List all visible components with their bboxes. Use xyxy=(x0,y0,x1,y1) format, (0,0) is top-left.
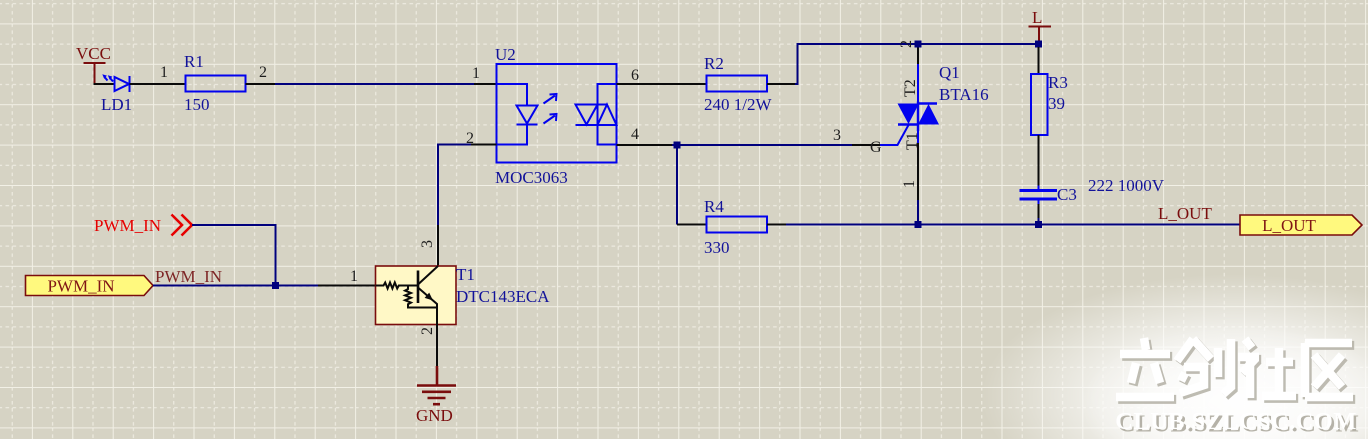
svg-text:LD1: LD1 xyxy=(101,95,132,114)
wire LD1 to R1 xyxy=(130,83,186,85)
svg-text:3: 3 xyxy=(833,127,841,144)
wire R2 to top rail xyxy=(767,83,795,85)
svg-text:2: 2 xyxy=(419,327,436,335)
resistor R2 xyxy=(707,76,768,92)
svg-text:R2: R2 xyxy=(704,54,724,73)
wire junction down to R4 xyxy=(676,145,678,225)
svg-text:PWM_IN: PWM_IN xyxy=(155,267,222,286)
ground xyxy=(417,366,456,404)
svg-text:BTA16: BTA16 xyxy=(939,85,989,104)
svg-text:PWM_IN: PWM_IN xyxy=(47,277,114,296)
svg-text:1: 1 xyxy=(901,180,918,188)
svg-text:6: 6 xyxy=(631,67,639,84)
svg-text:2: 2 xyxy=(259,64,267,81)
svg-text:Q1: Q1 xyxy=(939,63,960,82)
svg-text:U2: U2 xyxy=(495,45,516,64)
U2 coupling arrows xyxy=(544,94,557,124)
node junction bottom rail / Q1 T1 xyxy=(915,221,922,228)
svg-text:L_OUT: L_OUT xyxy=(1158,204,1212,223)
U2 internal LED xyxy=(497,84,538,145)
svg-text:G: G xyxy=(870,139,882,156)
svg-text:PWM_IN: PWM_IN xyxy=(94,216,161,235)
port L_OUT xyxy=(1240,215,1362,235)
svg-text:1: 1 xyxy=(160,64,168,81)
resistor R3 xyxy=(1038,47,1040,74)
svg-text:MOC3063: MOC3063 xyxy=(495,168,568,187)
svg-text:CLUB.SZLCSC.COM: CLUB.SZLCSC.COM xyxy=(1115,408,1357,435)
watermark chinese text (drawn strokes) xyxy=(1118,340,1355,400)
svg-text:R4: R4 xyxy=(704,197,724,216)
svg-text:C3: C3 xyxy=(1057,185,1077,204)
node junction PWM_IN xyxy=(272,282,279,289)
node junction top rail / Q1 T2 xyxy=(915,41,922,48)
transistor T1 xyxy=(376,266,457,325)
port PWM_IN xyxy=(26,276,154,296)
svg-text:L_OUT: L_OUT xyxy=(1262,216,1316,235)
svg-text:DTC143ECA: DTC143ECA xyxy=(456,287,550,306)
svg-text:T2: T2 xyxy=(902,79,919,97)
wire junction to Q1 gate xyxy=(677,144,852,146)
node junction C3 / bottom rail xyxy=(1035,221,1042,228)
svg-text:VCC: VCC xyxy=(76,44,111,63)
svg-text:240 1/2W: 240 1/2W xyxy=(704,95,772,114)
svg-text:GND: GND xyxy=(416,406,453,425)
svg-text:T1: T1 xyxy=(456,265,475,284)
wire T1 emitter to GND xyxy=(436,325,438,367)
wire port to T1 base xyxy=(153,285,318,287)
svg-text:1: 1 xyxy=(472,65,480,82)
U2 internal triac xyxy=(576,84,617,145)
node junction L / R3 / top rail xyxy=(1035,41,1042,48)
wire U2 pin6 to R2 xyxy=(617,83,707,85)
wire R1 to U2 pin 1 xyxy=(246,83,276,85)
transistor Q1 triac xyxy=(880,125,909,145)
capacitor C3 xyxy=(1020,186,1058,205)
svg-text:4: 4 xyxy=(631,126,639,143)
wire U2 pin2 down to T1 collector xyxy=(471,144,497,146)
svg-text:3: 3 xyxy=(419,240,436,248)
wire chevron to junction xyxy=(192,225,276,286)
wire VCC corner to LD1 anode xyxy=(94,83,115,85)
svg-text:R1: R1 xyxy=(184,52,204,71)
svg-text:L: L xyxy=(1032,8,1042,27)
wire R4 to bottom rail xyxy=(767,224,786,226)
power symbol VCC xyxy=(84,62,106,84)
node junction U2 pin4 xyxy=(617,144,673,146)
diode LD1 xyxy=(105,76,130,92)
svg-text:150: 150 xyxy=(184,95,210,114)
resistor R4 xyxy=(707,217,768,233)
wire bottom rail to port L_OUT xyxy=(918,224,1241,226)
T1 emitter arrowhead xyxy=(425,293,433,301)
svg-text:330: 330 xyxy=(704,238,730,257)
watermark glow xyxy=(981,274,1368,439)
svg-text:1: 1 xyxy=(350,268,358,285)
op-amp U2 optocoupler box xyxy=(497,64,617,163)
svg-text:222 1000V: 222 1000V xyxy=(1088,176,1165,195)
svg-text:T1: T1 xyxy=(904,132,921,150)
svg-text:2: 2 xyxy=(898,40,915,48)
svg-text:R3: R3 xyxy=(1048,73,1068,92)
svg-text:39: 39 xyxy=(1048,94,1065,113)
resistor R1 xyxy=(186,76,246,92)
